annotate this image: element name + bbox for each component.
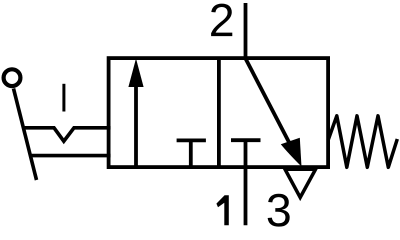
valve body position boxes: [109, 58, 329, 167]
blocked port T left box stem: [189, 140, 193, 167]
port 1 line with blocked stem: [244, 140, 248, 225]
flow path 2 to 3 diagonal: [246, 59, 293, 149]
flow arrow left box head: [128, 59, 143, 88]
exhaust triangle port 3: [285, 169, 316, 197]
position divider: [217, 58, 221, 167]
return spring: [328, 116, 397, 168]
blocked port T left box bar: [177, 138, 206, 142]
lever link top with detent notch: [23, 128, 111, 141]
port 2 line: [244, 3, 248, 59]
flow path arrowhead: [281, 138, 302, 167]
lever link bottom: [31, 154, 111, 158]
flow arrow left box stem: [134, 80, 138, 167]
blocked port T right box bar: [231, 138, 261, 142]
lever arm: [14, 89, 37, 181]
detent pin: [62, 84, 65, 112]
label 3: [268, 194, 290, 227]
label 2: [211, 4, 232, 36]
lever knob circle: [4, 69, 21, 86]
label 1: [216, 195, 228, 225]
